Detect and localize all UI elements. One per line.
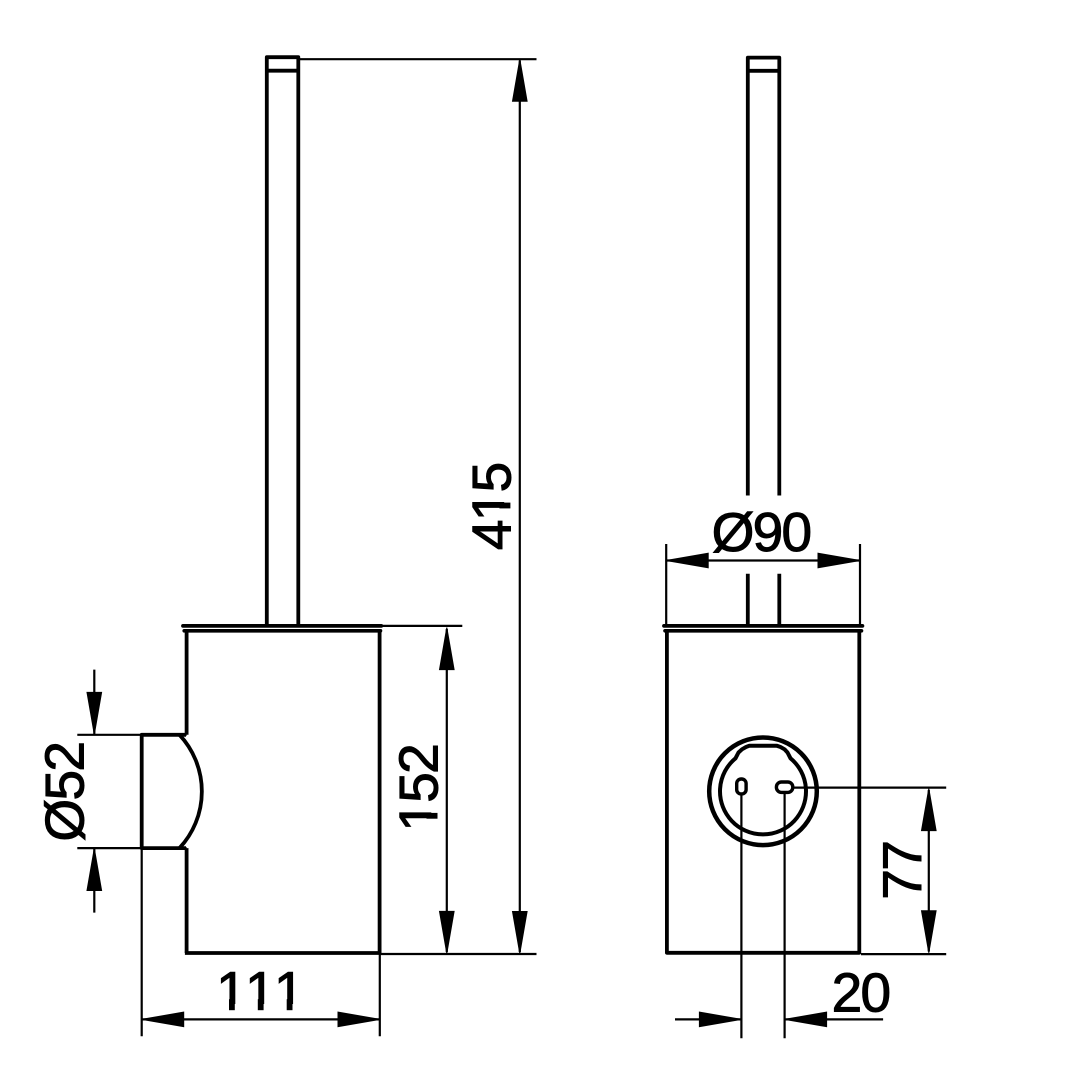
svg-text:Ø90: Ø90 bbox=[712, 501, 811, 563]
svg-text:Ø52: Ø52 bbox=[34, 743, 96, 842]
svg-text:20: 20 bbox=[832, 962, 890, 1024]
svg-text:77: 77 bbox=[871, 842, 933, 900]
